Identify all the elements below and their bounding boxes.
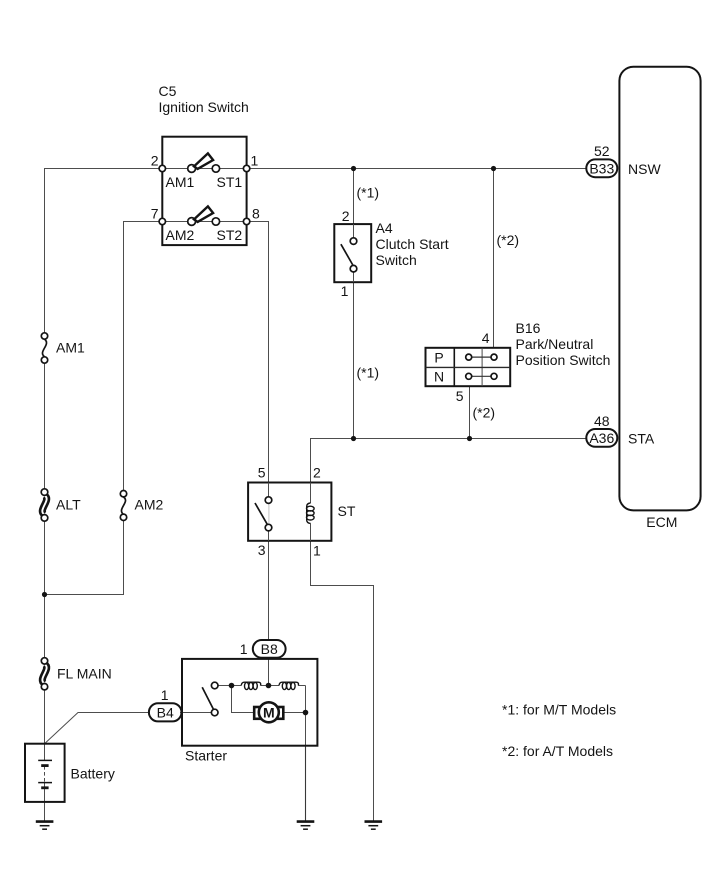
svg-text:B4: B4 [157,705,174,721]
svg-text:STA: STA [628,431,655,447]
svg-text:ECM: ECM [646,514,677,530]
svg-text:1: 1 [251,153,259,169]
svg-text:*2: for A/T Models: *2: for A/T Models [502,743,613,759]
svg-text:(*2): (*2) [473,405,496,421]
svg-text:1: 1 [240,641,248,657]
svg-text:Switch: Switch [376,252,417,268]
svg-text:1: 1 [313,543,321,559]
svg-text:AM1: AM1 [56,340,85,356]
svg-text:AM1: AM1 [166,174,195,190]
svg-text:*1: for M/T Models: *1: for M/T Models [502,702,616,718]
svg-text:2: 2 [151,153,159,169]
svg-text:2: 2 [313,465,321,481]
svg-text:AM2: AM2 [166,227,195,243]
svg-text:1: 1 [341,283,349,299]
svg-text:ST2: ST2 [217,227,243,243]
svg-text:AM2: AM2 [135,497,164,513]
svg-text:4: 4 [482,330,490,346]
svg-text:A36: A36 [589,430,614,446]
svg-text:(*1): (*1) [357,185,380,201]
svg-text:52: 52 [594,143,610,159]
svg-text:M: M [263,704,275,720]
svg-text:(*1): (*1) [357,365,380,381]
svg-text:ST: ST [338,503,356,519]
svg-text:B33: B33 [589,160,614,176]
svg-text:8: 8 [252,206,260,222]
svg-text:N: N [434,369,444,385]
svg-text:5: 5 [456,388,464,404]
svg-text:Park/Neutral: Park/Neutral [516,336,594,352]
svg-text:Battery: Battery [71,766,115,782]
svg-text:1: 1 [161,687,169,703]
svg-text:48: 48 [594,413,610,429]
svg-text:ALT: ALT [56,497,81,513]
svg-text:B8: B8 [261,641,278,657]
svg-text:ST1: ST1 [217,174,243,190]
svg-text:7: 7 [151,206,159,222]
svg-text:3: 3 [258,542,266,558]
svg-text:NSW: NSW [628,161,661,177]
svg-text:Starter: Starter [185,748,227,764]
svg-text:Ignition Switch: Ignition Switch [159,99,249,115]
svg-text:5: 5 [258,465,266,481]
svg-text:Clutch Start: Clutch Start [376,236,449,252]
svg-text:Position Switch: Position Switch [516,352,611,368]
svg-text:B16: B16 [516,320,541,336]
svg-text:(*2): (*2) [497,232,520,248]
svg-text:C5: C5 [159,83,177,99]
svg-text:2: 2 [342,208,350,224]
svg-text:P: P [434,350,443,366]
svg-text:FL MAIN: FL MAIN [57,666,112,682]
svg-text:A4: A4 [376,220,393,236]
